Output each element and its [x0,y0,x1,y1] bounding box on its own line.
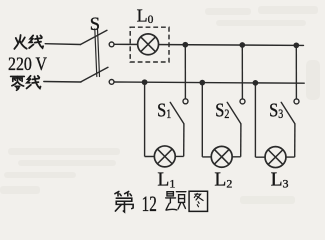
label 零线 (neutral wire) hand-drawn glyphs [11,76,41,90]
switch S gang bar line 2 [98,29,100,77]
node: live bus junction 3 [293,42,299,48]
wire: drop from neutral junction 3 [254,83,256,157]
wire: branch 2 bottom run [202,156,240,158]
lamp L0 [138,34,159,55]
wire: S3 hinge down to lamp row [294,124,296,157]
glyph 图 [189,191,207,211]
glyph 线 (of 零线) [27,76,41,89]
switch S3 contact circle [294,99,299,104]
wire: branch 3 bottom run [255,156,294,158]
wire: drop from neutral junction 1 [144,82,146,156]
lamp L3 [265,147,286,168]
lamp L1 [154,146,175,167]
wire: drop from live junction 2 to S2 contact [241,45,243,99]
wire: neutral stub from 零线 label to switch S [44,81,81,84]
svg-text:220 V: 220 V [8,54,47,75]
wire: drop from live junction 1 to S1 contact [184,45,186,99]
glyph 火 [14,35,26,49]
node: neutral bus junction 3 [253,80,259,86]
node: live bus junction 2 [239,42,245,48]
glyph 零 [11,76,25,90]
switch S2 blade [227,102,241,124]
node: neutral bus junction 2 [199,80,205,86]
wire: branch 1 bottom run [145,155,184,157]
switch S2 contact circle [240,99,245,104]
switch S top terminal circle [109,42,114,47]
glyph 题 [166,192,186,210]
label 火线 (live wire) hand-drawn glyphs [14,35,43,49]
wire: S1 hinge down to lamp row [183,124,185,157]
switch S bottom terminal circle [109,80,114,85]
switch S bottom blade [81,67,108,82]
wire: live bus from switch to right end [114,44,304,45]
node: live bus junction 1 [182,42,188,48]
wire: S2 hinge down to lamp row [240,124,242,157]
svg-text:12: 12 [142,191,157,216]
svg-text:S: S [90,15,100,35]
wire: live stub from 火线 label to switch S [45,43,80,46]
switch S top blade [81,30,108,44]
wire: drop from neutral junction 2 [201,83,203,157]
switch S1 contact circle [183,99,188,104]
glyph 第 [115,191,133,211]
wire: drop from live junction 3 to S3 contact [295,45,297,99]
caption 第 12 题图 [115,191,208,212]
wire: neutral bus from switch to right end [114,82,304,83]
switch S1 blade [170,102,184,124]
glyph 线 (of 火线) [29,35,43,48]
dashed enclosure around L0 [130,27,169,62]
node: neutral bus junction 1 [142,79,148,85]
lamp L2 [211,146,232,167]
switch S gang bar line 1 [95,29,97,77]
switch S3 blade [281,102,295,124]
